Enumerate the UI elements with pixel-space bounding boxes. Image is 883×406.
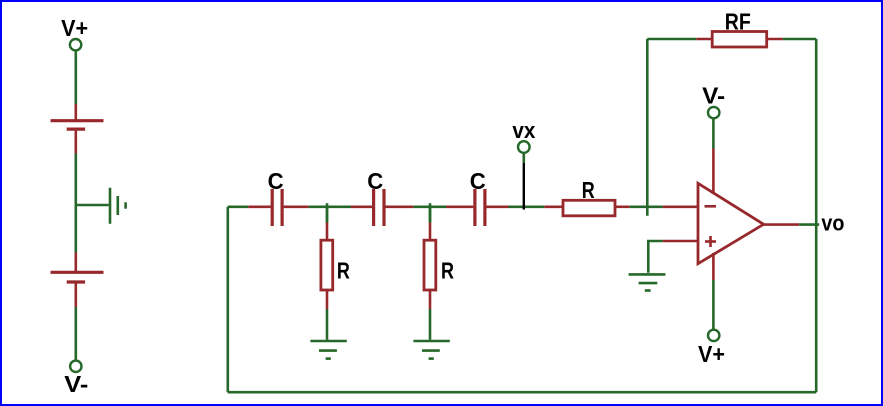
pin C3 left: [446, 206, 473, 209]
pin C1 left: [248, 206, 270, 209]
pin R2 top: [429, 223, 432, 241]
wire feedback vertical: [646, 39, 649, 216]
pin opamp output: [764, 223, 800, 226]
wire rail segment 2: [309, 206, 351, 209]
terminal V-: [70, 361, 81, 372]
pin: [75, 253, 78, 272]
wire R1 to ground: [326, 309, 329, 340]
wire top right: [783, 38, 817, 41]
ground 3: [629, 274, 666, 290]
wire vx stub: [522, 153, 525, 163]
pin opamp inverting input: [663, 206, 698, 209]
svg-text:V+: V+: [61, 15, 88, 41]
resistor R2: [424, 240, 436, 290]
wire: [75, 51, 78, 104]
terminal vx: [518, 141, 530, 153]
wire output: [799, 223, 819, 226]
pin C2 left: [351, 206, 372, 209]
battery V2 plate long: [51, 271, 104, 274]
pin R1 top: [326, 223, 329, 241]
wire rail segment 3: [413, 206, 446, 209]
wire rail segment 1: [228, 206, 249, 209]
wire right vertical: [815, 39, 818, 392]
wire bottom rail: [228, 391, 816, 394]
svg-text:RF: RF: [725, 9, 751, 35]
pin: [75, 131, 78, 154]
resistor R4: [563, 200, 615, 216]
pin V- supply: [712, 149, 715, 193]
ground 1: [310, 341, 346, 359]
svg-text:V-: V-: [64, 371, 88, 397]
pin R1 bottom: [326, 290, 329, 309]
pin R4 left: [544, 206, 563, 209]
op-amp minus sign: [705, 205, 717, 208]
pin: [75, 284, 78, 308]
svg-text:C: C: [367, 168, 383, 194]
wire: [75, 154, 78, 253]
terminal V+: [70, 39, 81, 50]
wire to ground: [76, 204, 109, 207]
wire top left: [647, 38, 696, 41]
wire left vertical: [227, 207, 230, 392]
ground 2: [413, 341, 449, 359]
pin RF right: [767, 38, 783, 41]
wire node 2 down: [429, 207, 432, 223]
op-amp U1: [698, 183, 764, 263]
pin C1 right: [284, 206, 309, 209]
svg-text:V-: V-: [702, 82, 725, 108]
svg-text:R: R: [441, 258, 454, 284]
wire non-inverting to ground: [648, 241, 663, 273]
pin: [75, 104, 78, 120]
wire rail segment 4: [509, 206, 545, 209]
wire: [75, 307, 78, 360]
junction node 2: [429, 203, 432, 222]
pin C3 right: [486, 206, 508, 209]
terminal V- (opamp): [708, 107, 719, 118]
wire V-: [712, 119, 715, 149]
junction node 1: [326, 203, 329, 222]
svg-text:C: C: [470, 168, 486, 194]
svg-text:C: C: [268, 168, 284, 194]
pin opamp non-inverting input: [663, 240, 699, 243]
resistor R1: [321, 240, 333, 290]
wire vx probe (black): [523, 163, 525, 210]
capacitor C3: [475, 189, 485, 226]
pin R2 bottom: [429, 290, 432, 309]
svg-text:V+: V+: [698, 341, 725, 367]
wire R2 to ground: [429, 309, 432, 340]
wire rail segment 5: [630, 206, 663, 209]
svg-text:vo: vo: [821, 211, 844, 236]
wire V+: [712, 280, 715, 330]
terminal V+ (opamp): [708, 330, 719, 341]
svg-text:R: R: [337, 258, 350, 284]
battery V1 plate short: [67, 128, 85, 131]
ground (sideways): [110, 188, 126, 224]
pin R4 right: [615, 206, 630, 209]
battery V2 plate short: [67, 280, 85, 283]
svg-text:vx: vx: [512, 118, 536, 143]
capacitor C2: [374, 189, 384, 226]
pin C2 right: [386, 206, 414, 209]
pin RF left: [696, 38, 712, 41]
svg-text:R: R: [582, 177, 595, 203]
resistor RF: [712, 32, 767, 48]
capacitor C1: [272, 189, 282, 226]
battery V1 plate long: [51, 119, 104, 122]
pin V+ supply: [712, 253, 715, 280]
wire node 1 down: [326, 207, 329, 223]
op-amp plus sign: [705, 236, 716, 247]
